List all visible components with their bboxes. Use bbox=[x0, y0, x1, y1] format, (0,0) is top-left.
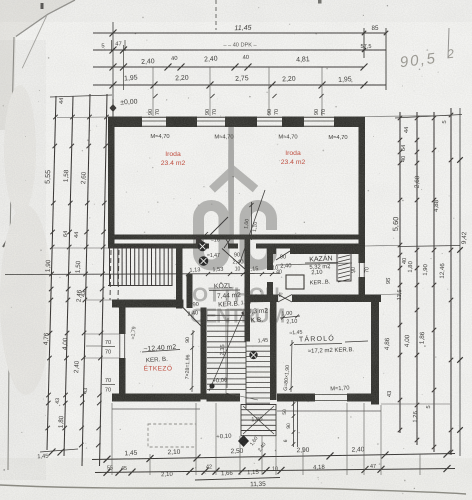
stair walk line bbox=[225, 309, 227, 393]
dim line 2 bbox=[93, 49, 386, 51]
disc symbol stair bbox=[249, 351, 257, 359]
bottom dim line 2 bbox=[95, 469, 455, 473]
exterior steps bottom bbox=[241, 404, 276, 406]
page edge diagonal fold bbox=[22, 15, 47, 68]
dirt specks bbox=[113, 271, 114, 272]
window right wall bbox=[359, 263, 366, 277]
right chain line 5 bbox=[459, 108, 461, 456]
watermark stem over roof bbox=[228, 150, 234, 200]
extension lines left side bbox=[57, 116, 108, 119]
wall stub stair right bbox=[176, 244, 183, 309]
left chain ticks bbox=[53, 115, 57, 119]
right dim chain lines bbox=[399, 112, 401, 433]
dashed terrace rect bbox=[148, 424, 196, 447]
wall left outer bbox=[108, 117, 115, 249]
wall right outer bbox=[359, 117, 366, 295]
wall middle band lower strip bbox=[108, 244, 209, 249]
exterior stair bbox=[109, 249, 111, 286]
right chain crossing y246 bbox=[399, 246, 460, 247]
wall Etkezo left bbox=[119, 308, 126, 400]
right chain ticks bbox=[398, 116, 402, 120]
dim line 3 bbox=[93, 66, 364, 68]
dim line 4 bbox=[93, 84, 386, 86]
bottom extension lines bbox=[111, 403, 113, 475]
window sills top wall bbox=[142, 116, 166, 118]
wall KOZL divider bbox=[245, 239, 251, 342]
interior dim line middle bbox=[5, 274, 280, 275]
door X Tarolo bbox=[278, 295, 292, 303]
wall top with window piers bbox=[108, 117, 142, 128]
stair flight right bbox=[246, 345, 270, 347]
wall Etkezo top bbox=[112, 300, 183, 308]
stair divider bbox=[245, 309, 247, 408]
margin wash bottom bbox=[0, 458, 472, 500]
door swing Etkezo bbox=[183, 308, 204, 330]
door symbol disc 1 bbox=[198, 242, 207, 251]
steps side dims bbox=[293, 400, 295, 447]
level mark +-0,00 bbox=[110, 104, 117, 112]
door slash KAZAN bbox=[276, 251, 290, 260]
kazan dim slashes bbox=[276, 263, 352, 265]
bottom dim line 3 bbox=[195, 478, 280, 481]
window sill bottom bbox=[315, 394, 347, 396]
right chain top connector bbox=[395, 115, 462, 119]
stair dim 2,35 bbox=[227, 318, 228, 388]
bottom dim line 1 bbox=[92, 454, 455, 460]
bottom scan curve bbox=[0, 485, 466, 494]
flue hatched bbox=[337, 249, 351, 281]
steps cross lines bbox=[243, 406, 274, 434]
door symbol triangle bbox=[196, 236, 206, 244]
extension line left bbox=[112, 22, 114, 117]
dim 85 bracket bbox=[363, 28, 365, 58]
watermark stem bbox=[228, 127, 234, 246]
dashed wall below stair bbox=[110, 250, 111, 300]
watermark roof chevron bbox=[212, 170, 256, 190]
left dim chain lines bbox=[47, 96, 56, 450]
top scan dashed line bbox=[215, 0, 217, 30]
wall Tarolo right bbox=[371, 295, 379, 405]
dim line 11,45 bbox=[93, 32, 386, 34]
margin wash top bbox=[0, 0, 472, 22]
scanner shading top-left corner bbox=[0, 0, 74, 130]
boiler rect bbox=[286, 275, 304, 289]
extension lines right side bbox=[365, 116, 451, 117]
top edge mark 2 bbox=[318, 0, 322, 4]
duct dim vertical bbox=[251, 202, 253, 240]
edge slash mark bbox=[3, 229, 14, 247]
page edge diagonal bbox=[16, 0, 75, 37]
wall KOZL2/KAZAN bbox=[267, 248, 273, 271]
watermark letter C bbox=[245, 206, 272, 266]
extension lines windows bbox=[152, 67, 154, 116]
stair walk diagonal bbox=[209, 313, 243, 391]
door symbol disc 2 bbox=[199, 256, 209, 266]
wall KAZAN top bbox=[273, 248, 276, 255]
window Etkezo left wall bbox=[119, 334, 126, 358]
left page edge line bbox=[8, 37, 14, 470]
duct diagonal right room bbox=[240, 190, 265, 262]
wall duct kozl1 bbox=[187, 274, 193, 309]
diamond symbol bbox=[238, 435, 249, 447]
watermark letter O bbox=[199, 206, 225, 266]
wall stair left bbox=[201, 308, 207, 400]
left chain top connector bbox=[50, 95, 112, 97]
handwritten tick bbox=[448, 28, 449, 58]
ground line right bbox=[277, 410, 381, 412]
top edge mark 1 bbox=[41, 3, 44, 9]
stair flight left bbox=[207, 309, 246, 311]
margin wash left bbox=[0, 40, 46, 480]
door post X mark bbox=[224, 237, 232, 249]
door swing left bbox=[210, 217, 228, 235]
ground line left bbox=[112, 408, 200, 410]
wall stair/Tarolo bbox=[270, 302, 277, 400]
door swing middle bbox=[222, 249, 246, 271]
wall Tarolo top bbox=[250, 295, 278, 303]
margin smudge bbox=[0, 205, 52, 395]
wall bottom bbox=[112, 394, 201, 402]
wall middle band upper strip bbox=[108, 235, 365, 240]
